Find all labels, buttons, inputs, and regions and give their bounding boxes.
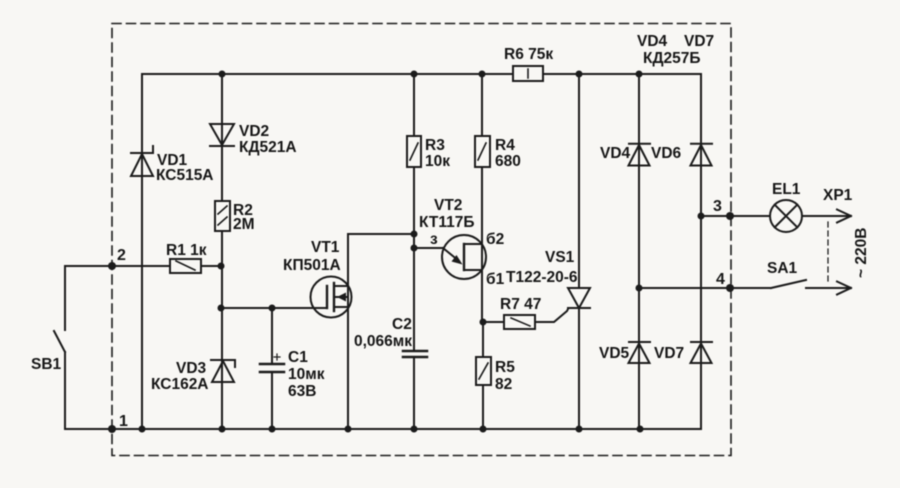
wire VS1 column: [578, 74, 580, 429]
wire SB1 branch: [65, 266, 112, 429]
label VT2 pin з: [430, 231, 438, 248]
zener diode VD1 КС515А: [131, 146, 153, 176]
svg-text:4: 4: [716, 271, 725, 288]
connector XP1 dashed divider: [827, 222, 829, 284]
capacitor C2 0,066мк: [403, 351, 427, 357]
svg-text:R4: R4: [495, 137, 515, 154]
svg-text:VT2: VT2: [434, 197, 462, 214]
svg-text:Т122-20-6: Т122-20-6: [506, 269, 578, 286]
svg-text:R3: R3: [425, 137, 445, 154]
label VT1: [283, 239, 341, 274]
switch SA1: [771, 280, 806, 288]
wire left bridge column: [638, 74, 640, 429]
wire R4 base column: [481, 74, 483, 322]
label VS1 type: [506, 269, 578, 286]
svg-text:VS1: VS1: [545, 249, 575, 266]
label R4: [495, 137, 521, 170]
svg-text:VT1: VT1: [311, 239, 340, 256]
wire VT2 emitter: [414, 247, 443, 249]
wire VT1 source: [347, 308, 349, 429]
label VT2: [419, 197, 474, 231]
thyristor VS1 Т122-20-6: [568, 288, 590, 308]
svg-text:VD7: VD7: [654, 345, 684, 362]
resistor R7 47: [504, 315, 535, 329]
svg-text:з: з: [430, 231, 438, 248]
svg-text:VD4: VD4: [600, 145, 631, 162]
wire R7 gate row: [483, 309, 568, 322]
svg-text:VD5: VD5: [599, 345, 630, 362]
svg-text:680: 680: [495, 153, 521, 170]
label R6 value: [504, 46, 553, 63]
connector XP1 arrow top: [837, 210, 851, 223]
connector XP1 arrow bottom: [837, 282, 851, 295]
label VD4 VD7 group: [637, 33, 714, 67]
svg-text:3: 3: [713, 198, 722, 215]
wire lamp to XP1: [802, 215, 849, 217]
pushbutton SB1: [54, 331, 65, 352]
svg-text:R5: R5: [495, 359, 515, 376]
svg-text:R6 75к: R6 75к: [504, 46, 553, 63]
wire R5 branch: [482, 322, 484, 429]
wire left column VD1: [141, 74, 143, 429]
junction node R1-R2: [218, 263, 225, 270]
label VT2 pin б2: [486, 231, 504, 248]
label VD2: [239, 123, 297, 156]
diode VD2 КД521А: [210, 124, 234, 146]
label VD4: [600, 145, 631, 162]
svg-text:КП501А: КП501А: [283, 257, 341, 274]
label SA1: [767, 260, 798, 277]
svg-text:VD6: VD6: [651, 145, 682, 162]
label VS1: [545, 249, 575, 266]
wire bottom rail: [112, 428, 701, 430]
svg-text:0,066мк: 0,066мк: [354, 333, 412, 350]
wire node4 row: [639, 287, 771, 289]
junction VT1 drain: [411, 231, 418, 252]
resistor R5 82: [476, 357, 491, 385]
junction R7 node: [480, 319, 487, 326]
wire node2 row: [65, 265, 222, 267]
label VD3: [151, 360, 209, 393]
label XP1: [823, 187, 853, 204]
svg-text:VD3: VD3: [176, 360, 207, 377]
svg-text:КС515А: КС515А: [156, 167, 214, 184]
label pin 1: [119, 413, 128, 430]
svg-text:SA1: SA1: [767, 260, 798, 277]
label mains ~220В: [853, 228, 870, 278]
svg-text:б2: б2: [486, 231, 504, 248]
svg-text:R7 47: R7 47: [500, 296, 541, 313]
resistor R4 680: [475, 136, 490, 167]
junction gate row: [218, 305, 276, 312]
diode VD7: [691, 342, 713, 363]
svg-text:63В: 63В: [288, 383, 316, 400]
wire right bridge column: [700, 74, 702, 429]
resistor R6 75к: [513, 66, 543, 81]
transistor VT2 КТ117Б (UJT): [442, 235, 486, 279]
wire SA1 to XP1: [806, 287, 849, 289]
label SB1: [31, 356, 62, 373]
enclosure dashed border: [112, 24, 731, 456]
label VD7: [654, 345, 684, 362]
svg-text:XP1: XP1: [823, 187, 853, 204]
wire R2/VD3 column: [221, 74, 223, 429]
transistor VT1 КП501А (MOSFET): [311, 277, 352, 318]
label C1: [288, 349, 325, 400]
capacitor C1 10мк 63В: [260, 354, 284, 372]
junction dots bottom rail: [139, 426, 644, 433]
svg-text:82: 82: [495, 376, 512, 393]
svg-text:C2: C2: [392, 316, 412, 333]
node pin 2: [108, 262, 116, 270]
svg-text:б1: б1: [486, 271, 505, 288]
label R5: [495, 359, 515, 393]
junction dots top rail: [219, 71, 643, 78]
wire top rail left: [142, 73, 513, 75]
resistor R2 2М: [215, 201, 230, 231]
wire gate row: [221, 307, 327, 309]
zener diode VD3 КС162А: [211, 360, 235, 382]
label pin 3: [713, 198, 722, 215]
label VT2 pin б1: [486, 271, 505, 288]
svg-text:VD2: VD2: [239, 123, 269, 140]
junction node4: [636, 285, 643, 292]
svg-text:R1 1к: R1 1к: [166, 242, 207, 259]
wire R3/C2 column: [413, 74, 415, 429]
svg-text:КТ117Б: КТ117Б: [419, 214, 474, 231]
lamp EL1: [770, 200, 802, 232]
label pin 2: [117, 247, 126, 264]
label VD1: [156, 152, 214, 184]
svg-text:C1: C1: [288, 349, 308, 366]
wire top rail right: [543, 73, 701, 75]
label R3: [425, 137, 450, 170]
svg-text:КС162А: КС162А: [151, 376, 209, 393]
svg-text:SB1: SB1: [31, 356, 62, 373]
svg-text:10к: 10к: [425, 153, 450, 170]
svg-text:КД521А: КД521А: [239, 139, 297, 156]
junction node3: [698, 213, 705, 220]
resistor R3 10к: [407, 136, 421, 167]
node pin 4: [726, 284, 734, 292]
node pin 3: [726, 212, 734, 220]
label VD6: [651, 145, 682, 162]
label R7 value: [500, 296, 541, 313]
svg-text:~ 220В: ~ 220В: [853, 228, 870, 278]
label VD5: [599, 345, 630, 362]
label C2: [354, 316, 412, 350]
svg-text:VD7: VD7: [684, 33, 714, 50]
svg-text:1: 1: [119, 413, 128, 430]
diode VD4: [629, 144, 651, 166]
label R1 value: [166, 242, 207, 259]
wire C1 column: [271, 308, 273, 429]
node pin 1: [108, 425, 116, 433]
svg-text:10мк: 10мк: [288, 366, 325, 383]
label R2: [233, 202, 255, 233]
resistor R1 1к: [170, 259, 201, 273]
label pin 4: [716, 271, 725, 288]
svg-text:VD4: VD4: [637, 33, 668, 50]
svg-text:КД257Б: КД257Б: [643, 50, 701, 67]
wire node3 row: [701, 215, 770, 217]
diode VD6: [691, 144, 713, 166]
svg-text:EL1: EL1: [772, 181, 801, 198]
label EL1: [772, 181, 801, 198]
svg-text:2: 2: [117, 247, 126, 264]
svg-text:2М: 2М: [233, 216, 255, 233]
wire VT1 drain: [348, 234, 414, 286]
diode VD5: [629, 342, 651, 363]
